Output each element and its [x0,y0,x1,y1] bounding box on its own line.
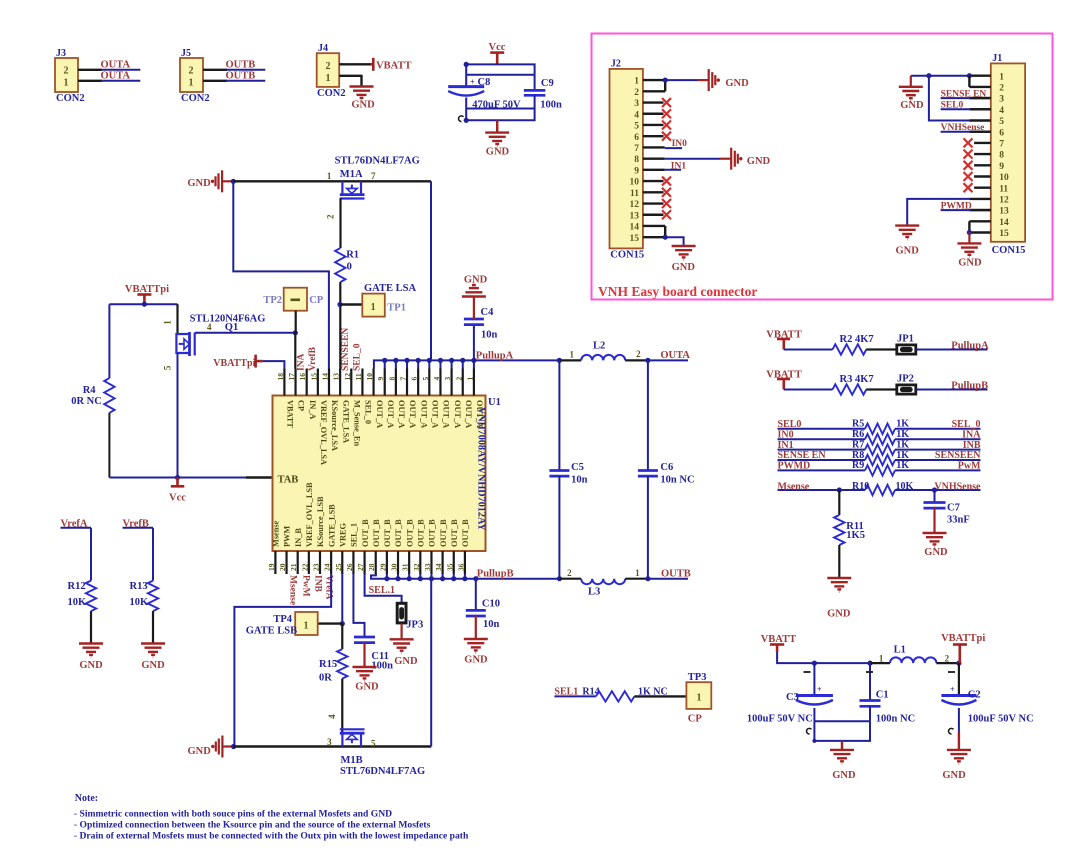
note text [74,793,469,842]
svg-text:CON15: CON15 [610,250,644,261]
resistor R5 1K row [778,419,981,434]
wire J1 pin 1 [969,74,990,76]
svg-text:0R NC: 0R NC [71,396,102,407]
wire GND stem (C8/C9) [496,120,498,132]
svg-text:2: 2 [999,84,1004,94]
svg-text:5: 5 [163,365,173,370]
svg-text:R2 4K7: R2 4K7 [840,334,874,345]
wire J2 pin 11 (NC) [643,191,664,193]
wire C3/C1 bottom rails to GND [807,721,870,749]
wire J1 pin5 to GND net [929,76,970,121]
svg-text:25: 25 [334,563,343,571]
svg-text:SEL_0: SEL_0 [952,419,981,430]
power symbol Vcc (down) [169,478,186,504]
resistor R3 4K7 [833,374,874,395]
svg-text:CP: CP [309,295,324,306]
svg-text:KSource_LSA: KSource_LSA [330,400,339,451]
ground (C8/C9) [485,133,509,158]
wire OUT_A bus [374,358,560,369]
svg-text:13: 13 [630,211,640,221]
wire SEL1 (pin27) to JP3 [365,574,402,602]
capacitor C1 100n NC [860,663,916,724]
wire TP1 stub [340,303,362,305]
svg-text:1: 1 [371,302,376,313]
net label INB (pin21) [313,575,323,593]
transistor M1A STL76DN4LF7AG [327,155,420,198]
net label PullupB [477,568,514,579]
no-connect X J2 pin 3 [662,98,671,107]
net label IN1 [665,161,687,171]
svg-text:INB: INB [313,575,323,593]
wire Vcc bottom rail to TAB [109,475,272,480]
svg-text:12: 12 [630,200,640,210]
test point TP2 CP [263,288,323,311]
svg-text:100n: 100n [540,100,562,111]
svg-text:GND: GND [747,156,771,167]
wire KSource_LSB to GND path [234,574,331,747]
power symbol Vcc [489,42,506,64]
power tap VBATTpi (U1 VBATT pin) [213,355,262,370]
svg-text:31: 31 [401,563,410,571]
svg-text:9: 9 [634,166,639,176]
svg-text:R10: R10 [852,481,869,492]
wire J1 pin 9 (NC) [974,164,991,166]
capacitor C3 100uF 50V NC [747,663,833,724]
net label OUTA [101,71,131,82]
svg-text:GND: GND [464,654,488,665]
net label VrefA [61,518,92,529]
wire J2 pin 9 [643,169,665,171]
svg-text:4: 4 [432,377,441,381]
svg-text:15: 15 [999,229,1009,239]
svg-text:19: 19 [267,563,276,571]
wire R3 to JP2 [866,388,896,390]
power tap VBATT [370,58,411,72]
net label PullupA [476,351,514,362]
svg-text:PullupB: PullupB [951,380,988,391]
svg-text:1: 1 [189,78,194,89]
ground (J2 pin8, sideways) [720,148,771,170]
net label VrefB [123,518,154,529]
svg-text:1: 1 [999,72,1004,82]
svg-text:Note:: Note: [75,793,98,804]
svg-text:PWM: PWM [283,526,292,547]
svg-text:C7: C7 [947,503,960,514]
svg-text:J3: J3 [56,48,66,59]
svg-text:34: 34 [434,563,443,571]
connector J4 [317,43,346,99]
svg-text:R7: R7 [852,439,864,450]
wire R13 to GND [152,611,154,643]
svg-text:VREF_OVL_LSB: VREF_OVL_LSB [305,482,314,547]
wire J2 pin 7 [643,146,665,148]
svg-text:SEL_0: SEL_0 [364,400,373,424]
net label OUTB [226,71,256,82]
power tap VBATTpi (filter) [941,633,985,663]
wire J2 pin15 to GND [665,237,683,245]
wire KSource_LSA to GND path [233,181,329,368]
svg-text:IN1: IN1 [778,440,794,451]
svg-text:33: 33 [423,563,432,571]
svg-text:33nF: 33nF [947,515,970,526]
wire M1A top [233,180,431,182]
svg-text:PwM: PwM [958,461,981,472]
node L3 input [557,576,562,581]
ground (J2 pin15) [672,246,696,273]
no-connect X J2 pin 5 [662,120,671,129]
svg-text:- Optimized connection between: - Optimized connection between the Ksour… [74,820,431,831]
svg-text:INA: INA [297,353,307,371]
net label OUTA [101,60,131,71]
wire OUTA (J3 pin1) [78,80,140,82]
wire J1 pin 10 (NC) [974,175,991,177]
no-connect X J2 pin 12 [662,199,671,208]
svg-text:CP: CP [297,400,306,411]
svg-text:10K: 10K [130,597,150,608]
svg-text:OUT_A: OUT_A [419,400,428,428]
svg-text:1K: 1K [896,439,909,450]
svg-text:32: 32 [412,563,421,571]
U1 top pin names [286,400,484,465]
wire VBATT to R3 [784,389,833,391]
svg-text:16: 16 [298,373,307,381]
svg-text:SENSEEN: SENSEEN [341,328,351,371]
svg-text:GND: GND [394,656,418,667]
svg-text:17: 17 [287,373,296,381]
svg-text:OUT_A: OUT_A [475,400,484,428]
ground (J1 pin12) [895,226,919,257]
svg-text:1: 1 [697,693,702,704]
wire Q1 drain [163,304,178,334]
svg-text:R9: R9 [852,460,864,471]
svg-text:OUTA: OUTA [101,71,131,82]
svg-text:R5: R5 [852,419,864,430]
wire VrefA to R12 [90,528,92,581]
svg-text:R8: R8 [852,450,864,461]
wire VBATTpi rail [109,302,177,307]
svg-text:2: 2 [636,349,641,359]
svg-text:OUT_B: OUT_B [417,519,426,547]
svg-text:6: 6 [999,128,1004,138]
U1 TAB pin name [278,475,299,486]
capacitor C7 33nF [924,490,970,533]
svg-text:JP3: JP3 [406,620,423,631]
svg-text:PwM: PwM [301,575,311,597]
svg-text:IN1: IN1 [671,161,687,171]
net label VrefA (pin22) [324,575,334,600]
net label PWMD [941,201,991,211]
svg-text:JP2: JP2 [897,373,914,384]
node M1A gate/drain junction [231,179,236,184]
svg-text:1K5: 1K5 [846,530,865,541]
wire VrefB to R13 [152,528,154,581]
wire J1 pin 12 [969,198,990,200]
svg-text:OUT_A: OUT_A [386,400,395,428]
connector J1 CON15 [991,53,1026,256]
svg-text:0R: 0R [319,672,332,683]
net label SENSE_EN [941,89,991,99]
no-connect X J2 pin 10 [662,177,671,186]
svg-text:L1: L1 [894,644,906,655]
svg-text:5: 5 [371,738,376,748]
svg-text:3: 3 [327,737,332,747]
svg-text:IN_B: IN_B [294,528,303,547]
svg-text:GND: GND [725,78,749,89]
wire J2 pin 13 (NC) [643,214,664,216]
svg-text:SENSE EN: SENSE EN [941,89,987,99]
no-connect X J1 pin 11 [964,183,973,192]
svg-text:GATE_LSB: GATE_LSB [327,504,336,547]
svg-text:TP4: TP4 [273,614,292,625]
resistor R2 4K7 [833,334,874,355]
svg-text:OUTB: OUTB [226,60,256,71]
connector J5 [180,48,210,104]
resistor R4 0R NC [71,378,114,413]
svg-text:470uF 50V: 470uF 50V [472,99,521,110]
svg-text:1K: 1K [896,419,909,430]
svg-text:15: 15 [309,373,318,381]
svg-text:GND: GND [355,681,379,692]
wire J2 pin1 to GND [665,79,697,81]
svg-text:OUT_B: OUT_B [405,519,414,547]
net label PullupA [951,340,989,351]
resistor R10 10K row (Msense/VNHSense) [778,481,982,495]
svg-text:11: 11 [354,373,363,380]
svg-text:15: 15 [630,234,640,244]
wire R12 to GND [90,611,92,643]
svg-text:GATE LSB: GATE LSB [246,625,297,636]
net label PullupB [951,380,988,391]
wire OUT_B bus [371,574,559,581]
svg-text:10n: 10n [483,619,500,630]
resistor R6 1K row [778,429,982,444]
svg-text:4: 4 [207,322,212,332]
resistor R12 10K [68,581,97,612]
wire GATE_LSB (pin25) to TP4 junction [340,574,345,626]
wire R2 to JP1 [866,348,896,350]
svg-text:12: 12 [999,196,1009,206]
svg-text:2: 2 [945,654,950,664]
wire J2 pin 6 (NC) [643,135,664,137]
svg-text:CON2: CON2 [181,93,210,104]
svg-text:29: 29 [378,563,387,571]
svg-text:12: 12 [343,373,352,381]
svg-text:11: 11 [630,189,639,199]
wire OUTB (J5 pin2) [203,69,265,71]
ground (C10) [464,639,488,665]
svg-text:10n: 10n [481,330,498,341]
svg-text:GND: GND [924,547,948,558]
power tap VBATT (R3) [766,370,801,390]
svg-text:C3: C3 [786,692,799,703]
wire J2 pin 15 [643,236,665,238]
U1 bottom pin stubs [275,551,464,574]
resistor R11 1K5 [834,490,865,578]
VNH Easy board connector frame [592,34,1053,300]
svg-text:2: 2 [454,377,463,381]
svg-text:R6: R6 [852,429,864,440]
svg-text:5: 5 [634,122,639,132]
svg-text:GND: GND [942,770,966,781]
svg-text:J4: J4 [318,43,328,54]
svg-text:PWMD: PWMD [941,201,972,211]
wire VBATT to R2 [784,349,833,351]
svg-text:6: 6 [634,133,639,143]
wire M1B bottom [234,745,432,747]
IC U1 VNH7008AY/VNHD7012AY body [273,396,501,552]
svg-text:20: 20 [278,563,287,571]
svg-text:Msense: Msense [272,520,281,547]
svg-text:OUT_A: OUT_A [375,400,384,428]
svg-text:GND: GND [672,262,696,273]
resistor R13 10K [130,581,159,612]
no-connect X J1 pin 7 [964,138,973,147]
ground (M1B, sideways) [188,736,234,758]
svg-text:26: 26 [345,563,354,571]
resistor R15 0R [319,624,347,684]
svg-text:OUTB: OUTB [661,569,691,580]
svg-text:4: 4 [634,110,639,120]
ground (J2 pin1, sideways) [698,69,750,91]
svg-text:GND: GND [351,99,375,110]
wire J1 pin 8 (NC) [974,153,991,155]
svg-text:10K: 10K [896,481,914,492]
svg-text:OUT_A: OUT_A [464,400,473,428]
svg-text:4: 4 [327,714,337,719]
svg-text:23: 23 [311,563,320,571]
svg-text:1: 1 [326,73,331,84]
svg-text:SEL_0: SEL_0 [353,343,363,371]
node OUTA [645,358,650,363]
wire J1 pin 13 [969,209,990,211]
net label SEL_0 (pin11) [353,343,363,371]
capacitor C5 10n [549,360,587,578]
svg-text:- Drain of external Mosfets mu: - Drain of external Mosfets must be conn… [74,831,469,842]
ground (J1 pin15) [957,243,982,268]
svg-text:GND: GND [827,608,851,619]
wire OUTA [648,359,688,361]
wire JP2 to PullupB [916,389,987,391]
svg-text:1: 1 [879,654,884,664]
svg-text:C8: C8 [478,77,491,88]
svg-text:Vcc: Vcc [489,42,506,53]
svg-text:M1A: M1A [340,169,363,180]
svg-text:SEL_1: SEL_1 [350,523,359,547]
svg-text:U1: U1 [488,397,501,408]
svg-text:14: 14 [999,218,1009,228]
svg-text:OUT_A: OUT_A [397,400,406,428]
net label IN0 [665,139,687,149]
svg-text:8: 8 [634,155,639,165]
wire J2 pin 5 (NC) [643,124,664,126]
svg-text:CON2: CON2 [317,88,346,99]
svg-text:27: 27 [356,563,365,571]
U1 bottom pin names [272,482,470,547]
connector J2 CON15 [610,59,645,261]
ground (C2) [942,750,971,781]
no-connect X J1 pin 10 [964,172,973,181]
wire J1 pin 15 [969,231,990,233]
wire J1 pin 2 [969,86,990,88]
power tap VBATT (filter) [761,634,796,652]
svg-text:18: 18 [276,373,285,381]
svg-text:R15: R15 [319,659,337,670]
svg-text:IN0: IN0 [778,429,794,440]
wire VBATT pin18 [263,361,285,368]
svg-text:OUT_B: OUT_B [383,519,392,547]
wire J1 pin 5 [969,119,990,121]
capacitor C6 10n NC [638,360,695,578]
svg-text:10n NC: 10n NC [660,475,694,486]
svg-text:VNHSense: VNHSense [941,123,985,133]
wire J1 pin 11 (NC) [974,186,991,188]
svg-text:14: 14 [320,373,329,381]
ground (R11) [827,578,851,619]
svg-text:6: 6 [410,377,419,381]
transistor Q1 STL120N4F6AG [163,313,266,370]
svg-text:GND: GND [464,275,488,286]
ground (R13) [141,644,165,672]
svg-text:10: 10 [999,173,1009,183]
svg-text:PullupB: PullupB [477,568,514,579]
svg-text:CP: CP [688,713,703,724]
svg-text:1: 1 [465,377,474,381]
svg-text:21: 21 [289,563,298,571]
svg-text:TP3: TP3 [688,672,707,683]
svg-text:100n NC: 100n NC [876,713,915,724]
wire OUTA (J3 pin2) [78,69,140,71]
svg-text:VBATTpi: VBATTpi [941,633,985,644]
title VNH Easy board connector [598,284,757,299]
svg-text:OUT_A: OUT_A [442,400,451,428]
net label VrefB (pin15) [308,346,318,371]
svg-text:35: 35 [445,563,454,571]
svg-text:KSource_LSB: KSource_LSB [316,496,325,547]
svg-text:1K: 1K [896,460,909,471]
node L2 input [557,358,562,363]
wire J2 pin14 to pin15 junction [663,226,668,240]
svg-text:7: 7 [999,140,1004,150]
no-connect X J2 pin 6 [662,132,671,141]
svg-text:Msense: Msense [288,575,298,605]
wire Q1 gate to CP junction [196,330,298,335]
ground (R12) [79,644,103,672]
svg-text:TP2: TP2 [263,295,282,306]
svg-text:1: 1 [634,77,639,87]
wire M1A drain to OUT_A bus [430,181,432,360]
svg-text:1K: 1K [896,429,909,440]
svg-text:JP1: JP1 [897,333,914,344]
svg-text:OUTA: OUTA [101,60,131,71]
svg-text:10: 10 [365,373,374,381]
svg-text:INA: INA [962,429,981,440]
svg-text:PullupA: PullupA [951,340,989,351]
svg-text:9: 9 [376,377,385,381]
svg-text:GND: GND [79,660,103,671]
resistor R7 1K row [778,439,981,454]
svg-text:C6: C6 [660,462,673,473]
svg-text:14: 14 [630,223,640,233]
svg-text:30: 30 [390,563,399,571]
svg-text:C4: C4 [481,307,495,318]
svg-text:GND: GND [832,770,856,781]
inductor L3 [559,568,648,597]
svg-text:SEL0: SEL0 [778,419,802,430]
svg-text:C5: C5 [571,462,584,473]
svg-text:CON2: CON2 [56,93,85,104]
capacitor C2 100uF 50V NC [941,663,1033,749]
svg-text:STL76DN4LF7AG: STL76DN4LF7AG [340,766,425,777]
